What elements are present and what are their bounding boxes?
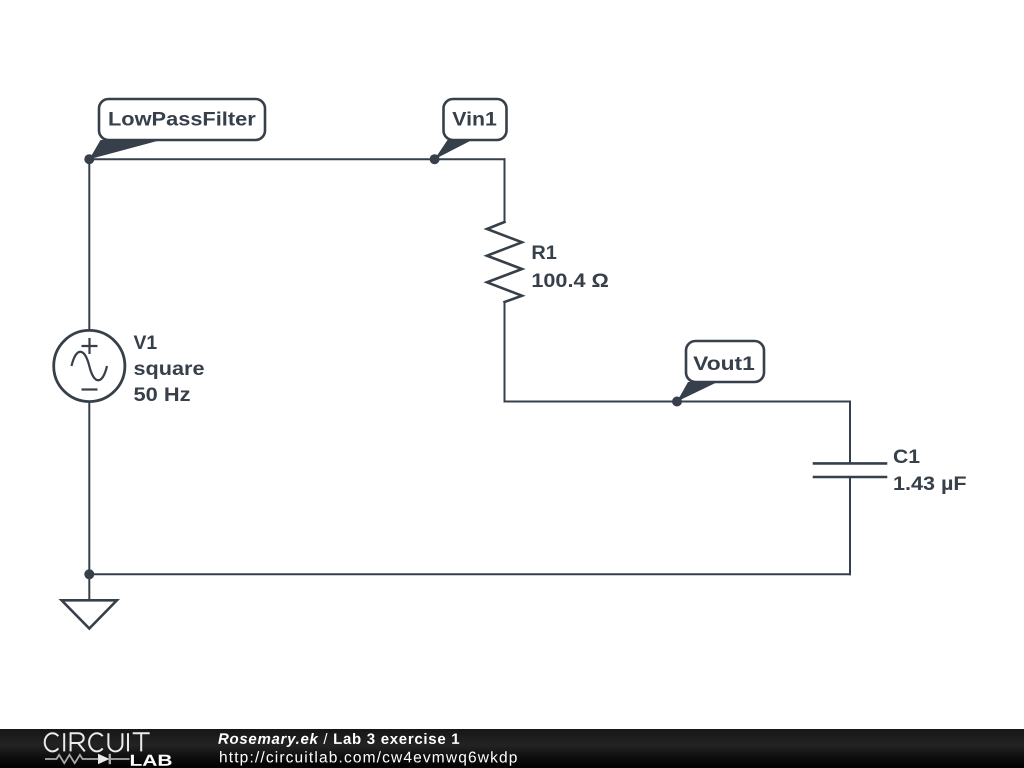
svg-text:Vout1: Vout1 bbox=[693, 354, 755, 375]
svg-text:Rosemary.ek / Lab 3 exercise 1: Rosemary.ek / Lab 3 exercise 1 bbox=[218, 731, 460, 748]
svg-text:Vin1: Vin1 bbox=[452, 110, 497, 131]
svg-text:R1: R1 bbox=[531, 243, 557, 264]
svg-text:square: square bbox=[134, 359, 205, 380]
svg-text:50 Hz: 50 Hz bbox=[134, 385, 191, 406]
svg-text:1.43 µF: 1.43 µF bbox=[893, 474, 967, 495]
svg-text:LAB: LAB bbox=[129, 753, 172, 768]
svg-text:V1: V1 bbox=[134, 333, 158, 354]
svg-text:http://circuitlab.com/cw4evmwq: http://circuitlab.com/cw4evmwq6wkdp bbox=[219, 749, 519, 766]
svg-text:100.4 Ω: 100.4 Ω bbox=[531, 271, 608, 292]
svg-text:C1: C1 bbox=[893, 447, 920, 468]
svg-text:LowPassFilter: LowPassFilter bbox=[108, 110, 256, 131]
